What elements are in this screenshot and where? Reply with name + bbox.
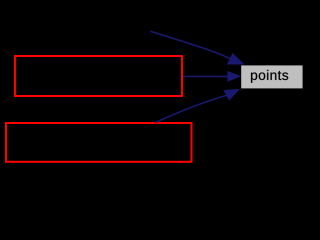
edge E1 arrowhead [227, 53, 244, 64]
edge E3 arrowhead [224, 89, 240, 100]
edge E3 wire (N3 to points) [156, 95, 227, 122]
edge E1 wire (N1 to points) [151, 31, 231, 59]
edge E2 wire (N2 to points) [183, 75, 228, 77]
node N2 (red truncated box, upper) [15, 56, 182, 96]
label points [251, 70, 288, 83]
node N3 (red truncated box, lower) [6, 123, 192, 162]
edge E2 arrowhead [228, 71, 241, 81]
node points (current node, grey) [241, 65, 302, 88]
node N1 (caller file, black box invisible on black background) [41, 14, 150, 48]
